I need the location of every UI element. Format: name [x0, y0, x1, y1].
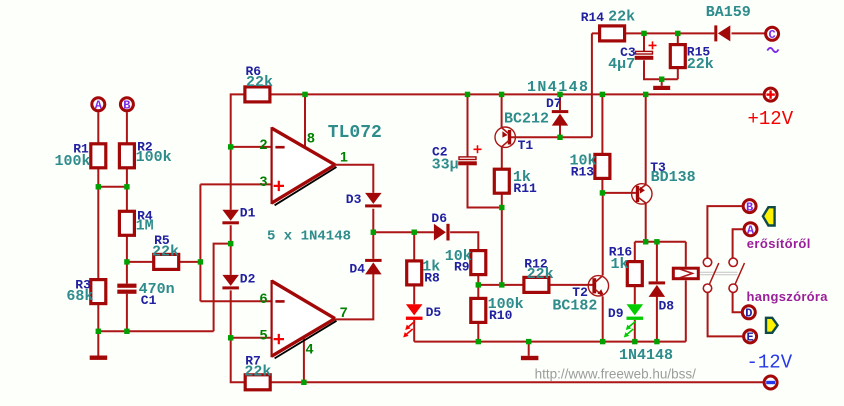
- svg-text:R9: R9: [454, 260, 470, 275]
- junction node ground left A: [96, 329, 101, 334]
- junction node C2 R11: [499, 205, 504, 210]
- ground C3/R15: [653, 86, 670, 90]
- svg-text:5 x 1N4148: 5 x 1N4148: [267, 229, 351, 245]
- wire R5 net: [127, 261, 200, 263]
- svg-text:D1: D1: [240, 205, 256, 220]
- svg-text:R11: R11: [513, 181, 537, 196]
- ground left: [90, 356, 108, 360]
- junction node coil D8: [654, 239, 659, 244]
- svg-text:R10: R10: [489, 308, 513, 323]
- svg-text:1: 1: [340, 149, 348, 165]
- svg-text:C1: C1: [141, 293, 157, 308]
- arrow to speaker: [766, 318, 778, 333]
- resistor R8: [407, 261, 422, 285]
- transistor T3 BD138: [632, 184, 652, 204]
- relay contact top-left: [703, 258, 711, 266]
- wire pin 8 supply: [304, 94, 306, 147]
- op-amp U1A TL072: [272, 128, 335, 203]
- junction node R5 right: [198, 259, 203, 264]
- svg-text:erősítőről: erősítőről: [747, 236, 811, 251]
- junction node pin8 R6: [302, 92, 307, 97]
- svg-text:R8: R8: [424, 271, 440, 286]
- junction node pin2: [228, 144, 233, 149]
- wire ground stub C3/R15: [661, 79, 663, 86]
- svg-text:1k: 1k: [611, 256, 629, 273]
- wire top R14/BA159 net: [592, 32, 766, 34]
- svg-text:E: E: [746, 331, 753, 345]
- wire D7 top: [559, 94, 561, 110]
- resistor R9: [471, 251, 486, 275]
- svg-text:+12V: +12V: [748, 108, 794, 130]
- wire T3 base: [602, 192, 636, 194]
- svg-text:B: B: [746, 200, 753, 214]
- junction node mrail gnd: [526, 339, 531, 344]
- svg-text:R14: R14: [581, 10, 605, 25]
- svg-text:2: 2: [260, 136, 268, 152]
- junction node ground left B: [124, 329, 129, 334]
- svg-text:4µ7: 4µ7: [608, 56, 635, 73]
- C2 plus sign: [474, 145, 482, 153]
- junction node C3 top: [641, 31, 646, 36]
- wire D3-D4 junction net: [373, 209, 478, 259]
- junction node D3/D4: [371, 230, 376, 235]
- resistor R1: [91, 144, 106, 168]
- diode D1: [222, 210, 239, 221]
- wire A terminal: [733, 229, 743, 258]
- junction node mrail D9: [632, 339, 637, 344]
- wire E terminal: [708, 293, 743, 337]
- junction node R13 T3 base: [600, 190, 605, 195]
- resistor R15: [670, 45, 685, 68]
- wire D terminal: [733, 293, 742, 313]
- wire T1 emitter: [501, 94, 503, 128]
- relay contact bottom-right: [729, 284, 737, 292]
- resistor R7: [245, 375, 270, 390]
- resistor R11: [494, 169, 509, 193]
- terminal A amp: [744, 223, 757, 236]
- svg-text:22k: 22k: [152, 243, 179, 260]
- svg-text:A: A: [95, 99, 103, 113]
- wire pin 3: [200, 183, 271, 185]
- junction node rail T3: [643, 92, 648, 97]
- svg-text:BD138: BD138: [651, 169, 696, 186]
- wire R16 to D9: [634, 286, 636, 342]
- wire D7 bottom stub: [559, 125, 561, 137]
- diode D3: [365, 193, 382, 204]
- svg-text:100k: 100k: [136, 149, 172, 166]
- wire T2 emitter: [602, 296, 604, 341]
- wire D8 column: [656, 242, 658, 342]
- junction node mrail T2: [600, 339, 605, 344]
- terminal C transformer: [766, 27, 779, 40]
- svg-text:1N4148: 1N4148: [527, 79, 589, 96]
- junction node coil T3: [643, 239, 648, 244]
- wire T1 base net: [511, 136, 592, 138]
- resistor R16: [627, 262, 642, 286]
- transistor T1 BC212: [495, 127, 515, 147]
- terminal B amp: [743, 200, 756, 213]
- junction node R11 R12: [499, 282, 504, 287]
- wire pin 2: [231, 146, 272, 148]
- svg-text:22k: 22k: [527, 266, 554, 283]
- junction node R9 R12: [476, 282, 481, 287]
- junction node gnd C3 R15: [659, 77, 664, 82]
- wire +12V rail: [270, 93, 763, 95]
- capacitor C2: [459, 157, 476, 160]
- svg-text:22k: 22k: [246, 74, 273, 91]
- junction node R15 top: [675, 31, 680, 36]
- op-amp U1B TL072: [272, 281, 335, 356]
- relay switch arm left: [709, 263, 719, 284]
- op-amp U1B plus: [274, 334, 284, 344]
- wire coil net: [635, 242, 686, 267]
- wire R1-R2 link: [98, 186, 127, 188]
- wire R9/R10 node: [477, 275, 479, 342]
- resistor R2: [119, 144, 134, 168]
- tilde AC symbol: [767, 48, 778, 52]
- svg-text:BC212: BC212: [504, 110, 549, 127]
- diode D6: [434, 224, 446, 241]
- svg-text:D8: D8: [659, 298, 675, 313]
- svg-text:22k: 22k: [687, 56, 714, 73]
- resistor R3: [91, 280, 106, 304]
- svg-text:4: 4: [306, 341, 314, 357]
- wire T3 collector down: [645, 203, 647, 242]
- wire input A drop: [97, 112, 99, 355]
- terminal +12V: [764, 88, 777, 101]
- wire pin 5: [231, 337, 272, 339]
- capacitor C3: [636, 51, 653, 54]
- diode BA159 D10: [714, 25, 717, 41]
- svg-text:B: B: [123, 99, 130, 113]
- junction node R1/R2 right: [124, 184, 129, 189]
- wire C3 branch: [644, 33, 678, 79]
- relay mechanical link: [700, 271, 738, 273]
- wire pin 6: [200, 300, 271, 302]
- diode D8: [649, 281, 666, 284]
- resistor R6: [245, 87, 270, 102]
- resistor R10: [471, 298, 486, 322]
- svg-text:33µ: 33µ: [432, 156, 459, 173]
- wire middle ground rail: [414, 280, 686, 341]
- junction node rail R13: [600, 92, 605, 97]
- op-amp U1B minus: [275, 300, 284, 303]
- svg-text:BC182: BC182: [552, 297, 597, 314]
- wire -12V rail: [270, 381, 764, 383]
- junction node rail D7: [557, 92, 562, 97]
- junction node rail T1: [499, 92, 504, 97]
- svg-text:TL072: TL072: [328, 123, 382, 143]
- op-amp U1A plus: [274, 181, 284, 191]
- wire pin3-pin6 vertical: [199, 184, 201, 301]
- svg-text:1N4148: 1N4148: [619, 347, 673, 364]
- svg-text:D3: D3: [346, 192, 362, 207]
- svg-text:T1: T1: [518, 138, 534, 153]
- arrow from amplifier: [763, 207, 775, 225]
- junction node D7 T1 base: [557, 135, 562, 140]
- diode D2: [222, 275, 239, 286]
- wire pin 4 supply: [303, 337, 305, 382]
- resistor R5: [154, 254, 179, 269]
- wire R13 bottom / T2 collector: [601, 178, 603, 275]
- wire C2 branch: [468, 94, 502, 207]
- C3 plus sign: [649, 41, 657, 49]
- resistor R4: [119, 211, 134, 235]
- terminal D speaker: [742, 306, 755, 319]
- junction node D1/D2: [228, 241, 233, 246]
- junction node R1/R2 left: [96, 184, 101, 189]
- terminal B input: [120, 98, 133, 111]
- resistor R13: [595, 154, 610, 178]
- transistor T2 BC182: [588, 276, 608, 296]
- svg-text:D7: D7: [546, 96, 562, 111]
- wire R14 drop to T1 base: [591, 33, 593, 137]
- svg-text:7: 7: [340, 304, 348, 320]
- terminal -12V: [764, 376, 777, 389]
- svg-text:D9: D9: [608, 306, 624, 321]
- svg-text:D5: D5: [426, 305, 442, 320]
- svg-text:3: 3: [260, 173, 268, 189]
- terminal A input: [92, 98, 105, 111]
- svg-text:C: C: [768, 28, 775, 42]
- junction node pin4 rail: [301, 380, 306, 385]
- junction node R5 left: [124, 259, 129, 264]
- wire pin1 to D3: [335, 165, 373, 193]
- wire D1/D2 mid to ground rail: [214, 244, 231, 332]
- junction node R8 top: [412, 230, 417, 235]
- terminal E speaker: [744, 330, 757, 343]
- svg-text:http://www.freeweb.hu/bss/: http://www.freeweb.hu/bss/: [535, 366, 697, 381]
- svg-text:D6: D6: [431, 211, 447, 226]
- wire R13 top: [601, 94, 603, 154]
- svg-text:-12V: -12V: [747, 351, 793, 373]
- svg-text:hangszóróra: hangszóróra: [747, 289, 829, 304]
- svg-text:1M: 1M: [136, 217, 154, 234]
- svg-text:22k: 22k: [608, 9, 635, 26]
- op-amp U1A minus: [275, 146, 284, 149]
- resistor R14: [600, 26, 625, 41]
- resistor R12: [524, 277, 549, 292]
- wire pin7 to D4: [335, 273, 373, 319]
- svg-text:8: 8: [307, 130, 315, 146]
- junction node pin5: [228, 335, 233, 340]
- relay contact top-right: [729, 258, 737, 266]
- wire R6 left to pin2 column: [231, 94, 245, 146]
- wire left ground rail: [98, 330, 213, 332]
- LED D9: [627, 304, 644, 315]
- svg-text:100k: 100k: [54, 153, 90, 170]
- wire input B drop: [126, 112, 128, 331]
- diode D4: [365, 259, 382, 262]
- relay contact bottom-left: [703, 284, 711, 292]
- svg-text:BA159: BA159: [706, 4, 751, 21]
- svg-text:R13: R13: [571, 165, 595, 180]
- svg-text:D4: D4: [349, 261, 365, 276]
- capacitor C1: [117, 284, 136, 288]
- svg-text:6: 6: [260, 290, 268, 306]
- diode D7: [552, 110, 569, 113]
- wire mid ground stub: [528, 342, 530, 356]
- junction node rail C2: [465, 92, 470, 97]
- LED D5: [406, 304, 423, 315]
- svg-text:68k: 68k: [66, 288, 93, 305]
- wire T3 emitter up: [645, 94, 647, 184]
- ground middle: [521, 356, 539, 360]
- relay switch arm right: [735, 263, 745, 284]
- wire R8 column: [413, 232, 415, 341]
- svg-text:22k: 22k: [244, 364, 271, 381]
- svg-text:5: 5: [260, 326, 268, 342]
- wire B terminal: [707, 206, 742, 258]
- wire R12 net: [478, 284, 593, 286]
- relay coil K1: [673, 268, 698, 279]
- svg-text:D: D: [745, 307, 752, 321]
- junction node mrail R10: [476, 339, 481, 344]
- junction node mrail D8: [654, 339, 659, 344]
- wire T1 collector / R11 column: [501, 147, 503, 285]
- svg-text:D2: D2: [240, 272, 256, 287]
- wire D1/D2 column: [231, 147, 246, 382]
